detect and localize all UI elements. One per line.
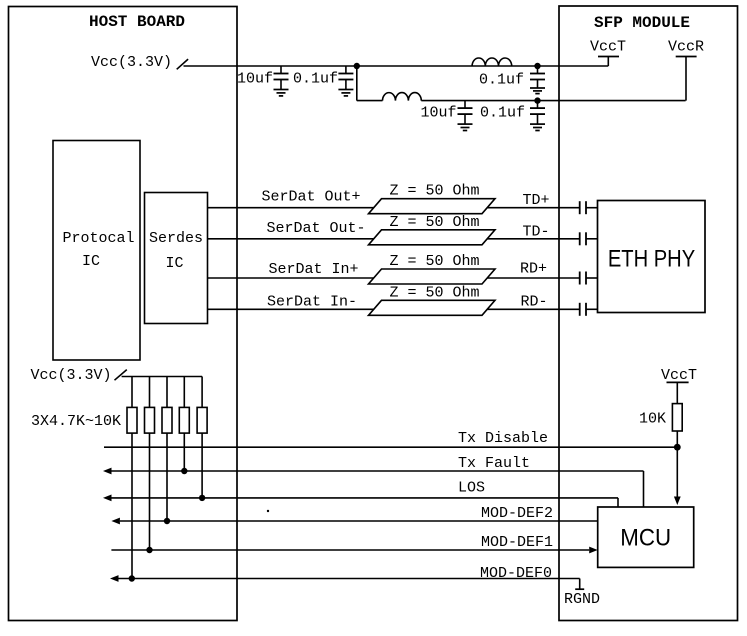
svg-text:MOD-DEF0: MOD-DEF0 [480, 565, 552, 582]
svg-text:10uf: 10uf [237, 71, 273, 88]
svg-text:10uf: 10uf [421, 105, 457, 122]
svg-text:Tx Fault: Tx Fault [458, 455, 530, 472]
svg-text:RD-: RD- [521, 294, 548, 311]
svg-text:IC: IC [165, 255, 183, 272]
svg-text:0.1uf: 0.1uf [479, 72, 524, 89]
svg-text:RGND: RGND [564, 591, 600, 608]
svg-text:0.1uf: 0.1uf [293, 71, 338, 88]
svg-text:Protocal: Protocal [62, 230, 134, 247]
svg-text:SerDat In+: SerDat In+ [269, 261, 359, 278]
svg-text:HOST BOARD: HOST BOARD [89, 13, 185, 31]
svg-text:MOD-DEF2: MOD-DEF2 [481, 505, 553, 522]
svg-text:Vcc(3.3V): Vcc(3.3V) [91, 54, 172, 71]
svg-text:RD+: RD+ [520, 261, 547, 278]
svg-text:SerDat In-: SerDat In- [267, 293, 357, 310]
svg-text:TD-: TD- [523, 224, 550, 241]
svg-text:SFP MODULE: SFP MODULE [594, 14, 690, 32]
svg-text:VccR: VccR [668, 39, 704, 56]
svg-text:IC: IC [82, 253, 100, 270]
svg-text:MOD-DEF1: MOD-DEF1 [481, 534, 553, 551]
svg-text:Z = 50 Ohm: Z = 50 Ohm [390, 214, 480, 231]
svg-text:Z = 50 Ohm: Z = 50 Ohm [390, 284, 480, 301]
svg-text:3X4.7K~10K: 3X4.7K~10K [31, 413, 121, 430]
svg-text:SerDat Out-: SerDat Out- [267, 220, 366, 237]
svg-text:Tx Disable: Tx Disable [458, 430, 548, 447]
svg-text:VccT: VccT [661, 367, 697, 384]
svg-text:MCU: MCU [620, 524, 671, 551]
svg-text:Z = 50 Ohm: Z = 50 Ohm [390, 183, 480, 200]
svg-text:Vcc(3.3V): Vcc(3.3V) [31, 367, 112, 384]
svg-text:Serdes: Serdes [149, 230, 203, 247]
svg-text:SerDat Out+: SerDat Out+ [262, 189, 361, 206]
svg-text:TD+: TD+ [523, 192, 550, 209]
svg-text:Z = 50 Ohm: Z = 50 Ohm [390, 253, 480, 270]
svg-text:VccT: VccT [590, 39, 626, 56]
svg-text:LOS: LOS [458, 480, 485, 497]
svg-text:0.1uf: 0.1uf [480, 105, 525, 122]
svg-text:10K: 10K [639, 411, 666, 428]
svg-text:ETH PHY: ETH PHY [608, 245, 696, 272]
